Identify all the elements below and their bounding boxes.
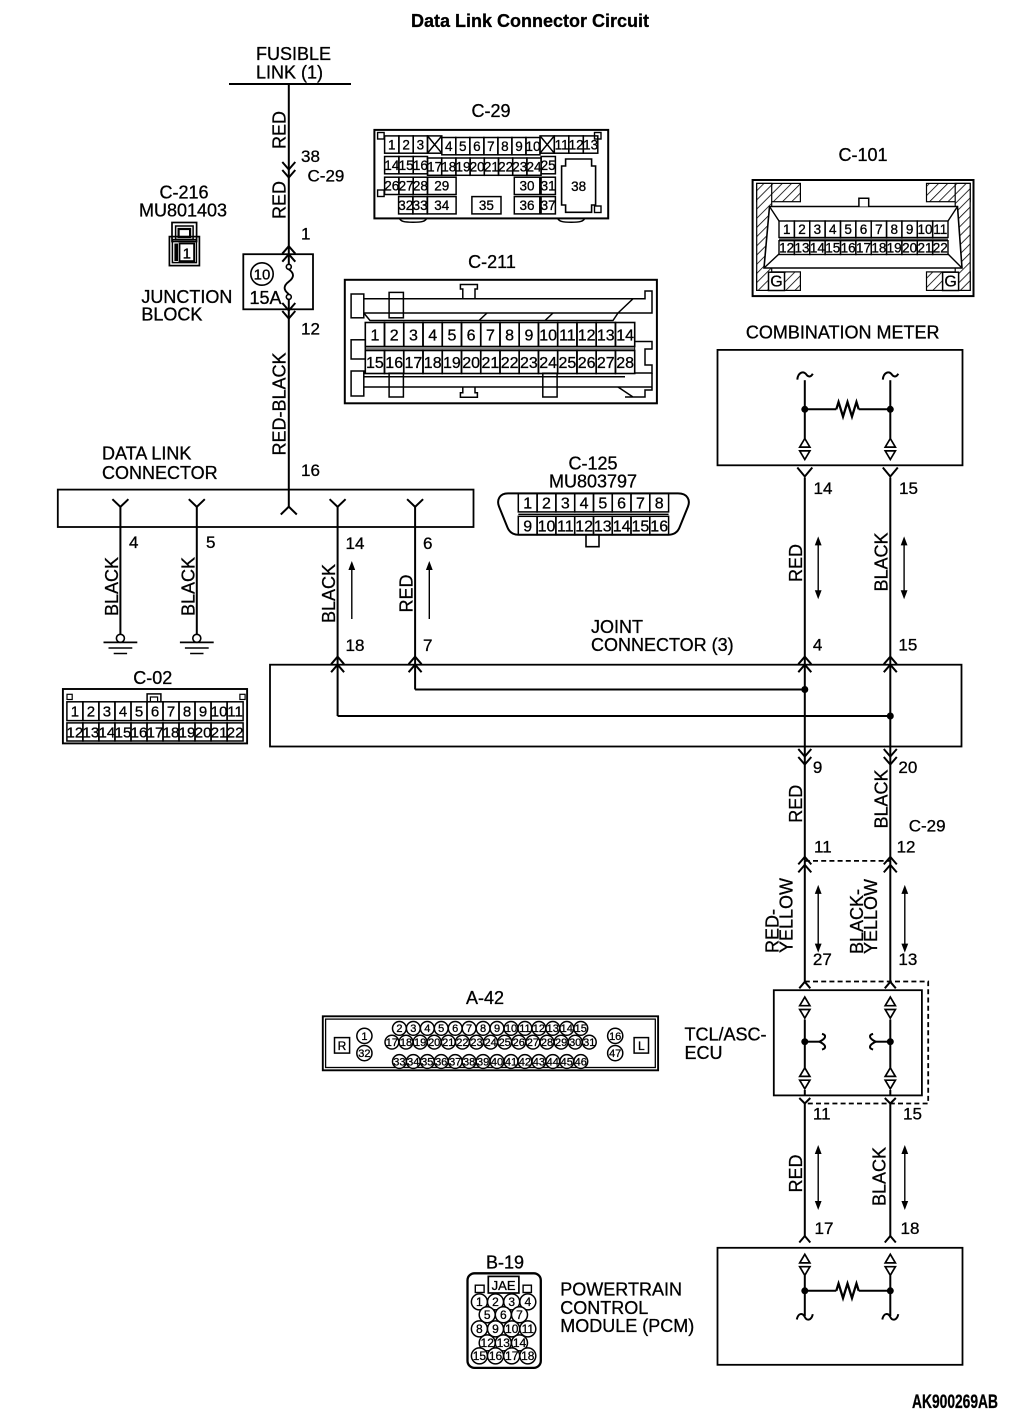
svg-text:G: G: [944, 274, 956, 291]
svg-text:3: 3: [508, 1295, 515, 1309]
svg-text:18: 18: [346, 636, 365, 655]
svg-text:15: 15: [632, 518, 650, 535]
svg-text:13: 13: [547, 1023, 559, 1035]
title: Data Link Connector Circuit: [411, 11, 649, 31]
connector C-29 inline crossing (dashed): [798, 857, 897, 873]
wire inside joint connector: pin 18 to pin 15: [338, 665, 894, 720]
svg-text:BLACK: BLACK: [871, 769, 891, 828]
svg-text:11: 11: [555, 137, 569, 152]
svg-text:11: 11: [522, 1322, 535, 1336]
svg-text:15: 15: [366, 355, 384, 372]
svg-text:11: 11: [814, 837, 832, 856]
connector B-19 pinout: [468, 1253, 541, 1368]
svg-text:27: 27: [527, 1037, 539, 1049]
svg-text:JAE: JAE: [492, 1278, 516, 1293]
svg-text:CONNECTOR (3): CONNECTOR (3): [591, 635, 734, 655]
svg-text:11: 11: [227, 704, 243, 721]
svg-text:5: 5: [447, 327, 456, 344]
svg-text:12: 12: [575, 518, 593, 535]
svg-text:47: 47: [609, 1048, 621, 1060]
connector C-125 MU803797 pinout: [498, 454, 689, 547]
svg-text:31: 31: [583, 1037, 595, 1049]
svg-text:18: 18: [521, 1349, 535, 1363]
svg-text:A-42: A-42: [466, 988, 504, 1008]
svg-text:17: 17: [815, 1219, 834, 1238]
svg-text:46: 46: [575, 1056, 587, 1068]
svg-text:30: 30: [569, 1037, 581, 1049]
svg-text:17: 17: [427, 160, 442, 175]
svg-text:2: 2: [87, 704, 95, 721]
svg-text:14: 14: [810, 241, 826, 256]
svg-text:28: 28: [413, 179, 428, 194]
svg-text:10: 10: [211, 704, 228, 721]
connector C-211 pinout: [345, 252, 657, 403]
wire BLACK DLC pin14 to joint connector pin 18: [319, 527, 364, 672]
svg-text:14: 14: [561, 1023, 573, 1035]
svg-text:13: 13: [594, 518, 612, 535]
ECU internal left terminal: [800, 997, 825, 1095]
svg-text:5: 5: [598, 495, 607, 512]
svg-text:5: 5: [844, 222, 852, 237]
svg-text:6: 6: [151, 704, 159, 721]
svg-text:13: 13: [83, 724, 100, 741]
powertrain control module box: [560, 1248, 962, 1365]
svg-text:8: 8: [655, 495, 664, 512]
node pin 16 (land): [281, 490, 297, 515]
svg-text:9: 9: [494, 1023, 500, 1035]
svg-text:28: 28: [541, 1037, 553, 1049]
svg-text:12: 12: [897, 837, 916, 856]
svg-text:C-101: C-101: [838, 145, 887, 165]
svg-text:42: 42: [519, 1056, 531, 1068]
svg-text:14: 14: [99, 724, 116, 741]
svg-text:35: 35: [479, 198, 494, 213]
svg-text:BLACK: BLACK: [871, 532, 891, 591]
svg-text:LINK (1): LINK (1): [256, 63, 323, 83]
wire BLACK-YELLOW C-29 to TCL/ASC-ECU pin 13: [847, 861, 917, 982]
connector C-29 pinout: [374, 101, 608, 222]
svg-text:5: 5: [206, 533, 215, 552]
svg-text:37: 37: [449, 1056, 461, 1068]
data link connector box: [58, 444, 474, 528]
svg-text:COMBINATION METER: COMBINATION METER: [746, 322, 940, 342]
svg-text:27: 27: [597, 355, 615, 372]
svg-text:3: 3: [561, 495, 570, 512]
svg-text:4: 4: [445, 139, 453, 154]
svg-text:38: 38: [571, 179, 586, 194]
svg-text:21: 21: [442, 1037, 454, 1049]
svg-text:13: 13: [583, 137, 598, 152]
svg-text:17: 17: [386, 1037, 398, 1049]
resistor inside combination meter: [805, 402, 891, 417]
svg-text:22: 22: [456, 1037, 468, 1049]
svg-text:C-211: C-211: [468, 252, 516, 272]
svg-text:4: 4: [829, 222, 837, 237]
svg-text:13: 13: [898, 950, 917, 969]
svg-text:7: 7: [636, 495, 645, 512]
svg-text:AK900269AB: AK900269AB: [912, 1392, 998, 1413]
svg-text:43: 43: [533, 1056, 545, 1068]
svg-text:8: 8: [890, 222, 898, 237]
svg-text:28: 28: [616, 355, 634, 372]
svg-text:4: 4: [813, 635, 822, 654]
svg-text:17: 17: [505, 1349, 519, 1363]
node DLC pin 5: [189, 499, 205, 527]
svg-text:16: 16: [841, 241, 856, 256]
svg-text:21: 21: [482, 355, 500, 372]
svg-text:C-02: C-02: [133, 668, 172, 688]
svg-text:2: 2: [798, 222, 806, 237]
svg-text:18: 18: [901, 1219, 920, 1238]
svg-text:36: 36: [435, 1056, 447, 1068]
svg-text:24: 24: [539, 355, 557, 372]
svg-text:10: 10: [505, 1023, 517, 1035]
svg-text:10: 10: [917, 222, 932, 237]
DLC pin labels: [129, 533, 432, 553]
svg-text:POWERTRAIN: POWERTRAIN: [560, 1280, 682, 1300]
svg-text:11: 11: [557, 518, 574, 535]
svg-text:19: 19: [887, 241, 902, 256]
svg-text:MU803797: MU803797: [549, 472, 637, 492]
svg-text:15: 15: [473, 1349, 487, 1363]
svg-text:2: 2: [390, 327, 399, 344]
svg-text:16: 16: [650, 518, 668, 535]
svg-text:BLACK: BLACK: [102, 557, 122, 616]
wire RED ECU pin 11 to PCM pin 17: [786, 1104, 834, 1243]
svg-text:9: 9: [523, 518, 532, 535]
svg-text:25: 25: [559, 355, 577, 372]
svg-text:RED: RED: [397, 574, 417, 612]
PCM internal resistor: [805, 1284, 891, 1299]
PCM internal left terminal (pin 17): [797, 1254, 813, 1319]
svg-text:3: 3: [103, 704, 111, 721]
wire BLACK joint connector to C-29 pin 12: [871, 747, 945, 861]
svg-text:30: 30: [519, 179, 534, 194]
svg-text:17: 17: [856, 241, 871, 256]
svg-text:3: 3: [409, 327, 418, 344]
svg-text:12: 12: [569, 137, 584, 152]
svg-text:6: 6: [860, 222, 868, 237]
svg-text:21: 21: [917, 241, 932, 256]
svg-text:C-29: C-29: [308, 167, 345, 186]
svg-text:TCL/ASC-: TCL/ASC-: [685, 1025, 767, 1045]
svg-text:17: 17: [405, 355, 423, 372]
svg-text:11: 11: [933, 222, 947, 237]
svg-text:15: 15: [575, 1023, 587, 1035]
svg-text:19: 19: [179, 724, 196, 741]
wire BLACK meter pin15 to joint connector pin 15: [871, 478, 917, 673]
node DLC pin 14: [330, 499, 346, 527]
svg-text:YELLOW: YELLOW: [861, 879, 881, 954]
svg-text:1: 1: [301, 225, 310, 244]
svg-text:26: 26: [578, 355, 596, 372]
svg-text:32: 32: [398, 198, 413, 213]
svg-text:15: 15: [399, 158, 414, 173]
svg-text:38: 38: [463, 1056, 475, 1068]
joint connector (3) box: [270, 617, 962, 747]
svg-text:20: 20: [902, 241, 917, 256]
svg-text:11: 11: [813, 1105, 831, 1124]
svg-text:BLACK: BLACK: [179, 557, 199, 616]
svg-text:15: 15: [903, 1105, 922, 1124]
svg-text:7: 7: [487, 139, 495, 154]
svg-text:CONNECTOR: CONNECTOR: [102, 463, 218, 483]
svg-text:2: 2: [542, 495, 551, 512]
svg-text:BLOCK: BLOCK: [141, 305, 202, 325]
svg-text:1: 1: [183, 245, 191, 262]
svg-text:13: 13: [794, 241, 809, 256]
svg-text:8: 8: [505, 327, 514, 344]
connector A-42 pinout: [323, 988, 658, 1071]
svg-text:10: 10: [525, 139, 540, 154]
wire RED from fusible link to junction block: [270, 84, 345, 265]
svg-text:DATA LINK: DATA LINK: [102, 444, 191, 464]
svg-text:44: 44: [547, 1056, 559, 1068]
svg-text:39: 39: [477, 1056, 489, 1068]
figure code AK900269AB: [912, 1392, 998, 1413]
svg-text:ECU: ECU: [685, 1043, 723, 1063]
svg-text:26: 26: [384, 179, 399, 194]
svg-text:18: 18: [871, 241, 886, 256]
ECU pin 27 entry: [799, 982, 810, 989]
svg-text:13: 13: [597, 327, 615, 344]
svg-text:15: 15: [898, 635, 917, 654]
svg-text:1: 1: [71, 704, 79, 721]
svg-text:20: 20: [462, 355, 480, 372]
svg-text:22: 22: [933, 241, 948, 256]
svg-text:5: 5: [135, 704, 143, 721]
svg-text:19: 19: [443, 355, 461, 372]
svg-text:C-29: C-29: [909, 816, 946, 835]
svg-text:10: 10: [539, 327, 557, 344]
svg-text:6: 6: [500, 1308, 507, 1322]
connector C-101 pinout: [753, 145, 974, 296]
svg-text:35: 35: [421, 1056, 433, 1068]
svg-text:14: 14: [384, 158, 400, 173]
svg-text:C-125: C-125: [568, 454, 617, 474]
svg-text:FUSIBLE: FUSIBLE: [256, 44, 331, 64]
svg-text:3: 3: [410, 1023, 416, 1035]
svg-text:33: 33: [413, 198, 428, 213]
svg-text:10: 10: [254, 266, 271, 283]
svg-text:5: 5: [484, 1308, 491, 1322]
svg-text:12: 12: [67, 724, 84, 741]
svg-text:MU801403: MU801403: [139, 201, 227, 221]
svg-text:21: 21: [211, 724, 228, 741]
svg-text:4: 4: [580, 495, 589, 512]
svg-text:6: 6: [473, 139, 481, 154]
svg-text:3: 3: [417, 137, 425, 152]
svg-text:22: 22: [227, 724, 244, 741]
svg-text:BLACK: BLACK: [870, 1147, 890, 1206]
svg-text:10: 10: [538, 518, 556, 535]
wire BLACK to ground (pin 4): [102, 527, 122, 635]
svg-text:21: 21: [484, 160, 499, 175]
svg-text:11: 11: [519, 1023, 530, 1035]
svg-text:7: 7: [167, 704, 175, 721]
svg-text:9: 9: [515, 139, 523, 154]
svg-text:17: 17: [147, 724, 164, 741]
svg-text:18: 18: [441, 160, 456, 175]
svg-text:B-19: B-19: [486, 1253, 524, 1273]
svg-text:16: 16: [131, 724, 148, 741]
svg-text:9: 9: [813, 758, 822, 777]
svg-text:22: 22: [501, 355, 519, 372]
svg-text:15A: 15A: [250, 288, 282, 308]
svg-text:9: 9: [492, 1322, 499, 1336]
svg-text:1: 1: [388, 137, 396, 152]
svg-text:RED: RED: [270, 111, 290, 149]
svg-text:6: 6: [452, 1023, 458, 1035]
svg-text:34: 34: [407, 1056, 419, 1068]
svg-text:6: 6: [617, 495, 626, 512]
svg-text:9: 9: [524, 327, 533, 344]
node DLC pin 6: [407, 499, 423, 527]
svg-text:6: 6: [423, 534, 432, 553]
svg-text:4: 4: [524, 1295, 531, 1309]
svg-text:4: 4: [119, 704, 127, 721]
connector C-216 MU801403: [139, 183, 227, 266]
ECU internal right terminal: [870, 997, 895, 1095]
svg-text:1: 1: [370, 327, 379, 344]
svg-text:20: 20: [898, 758, 917, 777]
svg-text:31: 31: [541, 179, 556, 194]
svg-text:16: 16: [385, 355, 403, 372]
svg-text:12: 12: [779, 241, 794, 256]
svg-text:7: 7: [423, 636, 432, 655]
svg-text:33: 33: [393, 1056, 405, 1068]
svg-text:MODULE (PCM): MODULE (PCM): [560, 1316, 694, 1336]
svg-text:34: 34: [434, 198, 450, 213]
svg-text:14: 14: [616, 327, 634, 344]
svg-text:L: L: [638, 1039, 645, 1053]
svg-text:24: 24: [484, 1037, 496, 1049]
svg-text:29: 29: [555, 1037, 567, 1049]
wire RED-YELLOW C-29 to TCL/ASC-ECU pin 27: [763, 861, 832, 982]
svg-text:18: 18: [163, 724, 180, 741]
svg-text:4: 4: [129, 533, 138, 552]
PCM internal right terminal (pin 18): [882, 1254, 898, 1319]
svg-text:5: 5: [438, 1023, 444, 1035]
svg-text:C-216: C-216: [159, 183, 208, 203]
svg-text:RED: RED: [786, 785, 806, 823]
svg-text:14: 14: [613, 518, 631, 535]
svg-text:29: 29: [434, 179, 449, 194]
svg-text:8: 8: [480, 1023, 486, 1035]
svg-text:32: 32: [358, 1048, 370, 1060]
svg-text:R: R: [338, 1039, 347, 1053]
svg-text:37: 37: [541, 198, 556, 213]
svg-text:23: 23: [512, 160, 527, 175]
svg-text:RED: RED: [270, 181, 290, 219]
TCL/ASC-ECU box: [685, 990, 922, 1095]
svg-text:1: 1: [476, 1295, 483, 1309]
svg-text:41: 41: [505, 1056, 517, 1068]
svg-text:6: 6: [467, 327, 476, 344]
wire inside joint connector: pin 7 to pin 4: [415, 665, 808, 693]
wire RED meter pin14 to joint connector pin 4: [786, 478, 823, 673]
svg-text:23: 23: [470, 1037, 482, 1049]
ECU pin 11 exit: [799, 1098, 830, 1124]
node DLC pin 4: [112, 499, 128, 527]
svg-text:3: 3: [814, 222, 822, 237]
wire BLACK to ground (pin 5): [179, 527, 199, 635]
svg-text:8: 8: [501, 139, 509, 154]
svg-text:45: 45: [561, 1056, 573, 1068]
svg-text:36: 36: [519, 198, 534, 213]
svg-text:18: 18: [400, 1037, 412, 1049]
svg-text:16: 16: [413, 158, 428, 173]
svg-text:9: 9: [906, 222, 914, 237]
svg-text:YELLOW: YELLOW: [777, 878, 797, 953]
svg-text:23: 23: [520, 355, 538, 372]
svg-text:12: 12: [301, 320, 320, 339]
TCL/ASC-ECU dashed connector outline: [805, 982, 928, 1104]
joint connector pass-through wires: [798, 665, 897, 765]
svg-text:26: 26: [513, 1037, 525, 1049]
svg-text:RED-BLACK: RED-BLACK: [270, 352, 290, 455]
meter internal wire right (pin 15): [883, 372, 899, 459]
wire RED DLC pin6 to joint connector pin 7: [397, 527, 433, 672]
ground symbol (pin 5): [180, 634, 214, 653]
ECU pin 15 exit: [885, 1098, 922, 1124]
svg-text:16: 16: [489, 1349, 503, 1363]
svg-text:RED: RED: [786, 1154, 806, 1192]
svg-text:G: G: [770, 274, 782, 291]
svg-text:7: 7: [516, 1308, 523, 1322]
connector C-02 pinout: [63, 668, 247, 743]
svg-text:20: 20: [428, 1037, 440, 1049]
svg-text:BLACK: BLACK: [319, 564, 339, 623]
fuse element: [285, 264, 293, 299]
svg-text:RED: RED: [786, 544, 806, 582]
svg-text:9: 9: [199, 704, 207, 721]
node FUSIBLE LINK (1): [229, 44, 351, 84]
svg-text:1: 1: [783, 222, 791, 237]
svg-text:18: 18: [424, 355, 442, 372]
svg-text:12: 12: [533, 1023, 545, 1035]
svg-text:27: 27: [399, 179, 414, 194]
svg-text:2: 2: [402, 137, 410, 152]
svg-text:8: 8: [183, 704, 191, 721]
svg-text:1: 1: [361, 1031, 367, 1043]
junction block (fuse 10 15A): [141, 246, 313, 325]
svg-text:16: 16: [301, 461, 320, 480]
svg-text:2: 2: [492, 1295, 499, 1309]
ground symbol (pin 4): [104, 634, 138, 653]
svg-text:15: 15: [825, 241, 840, 256]
svg-text:38: 38: [301, 147, 320, 166]
ECU pin 13 entry: [885, 982, 896, 989]
svg-text:7: 7: [486, 327, 495, 344]
svg-text:27: 27: [813, 950, 832, 969]
svg-text:19: 19: [414, 1037, 426, 1049]
wire RED-BLACK from junction block to data link connector: [270, 299, 320, 490]
svg-text:20: 20: [470, 160, 485, 175]
svg-text:7: 7: [466, 1023, 472, 1035]
svg-text:2: 2: [396, 1023, 402, 1035]
svg-text:C-29: C-29: [471, 101, 510, 121]
meter output forks: [797, 468, 918, 499]
wire BLACK ECU pin 15 to PCM pin 18: [870, 1104, 920, 1243]
svg-text:7: 7: [875, 222, 883, 237]
svg-text:22: 22: [498, 160, 513, 175]
meter internal wire left (pin 14): [797, 372, 813, 459]
svg-text:1: 1: [523, 495, 532, 512]
svg-text:11: 11: [559, 327, 576, 344]
svg-text:14: 14: [346, 534, 365, 553]
svg-text:CONTROL: CONTROL: [560, 1298, 648, 1318]
